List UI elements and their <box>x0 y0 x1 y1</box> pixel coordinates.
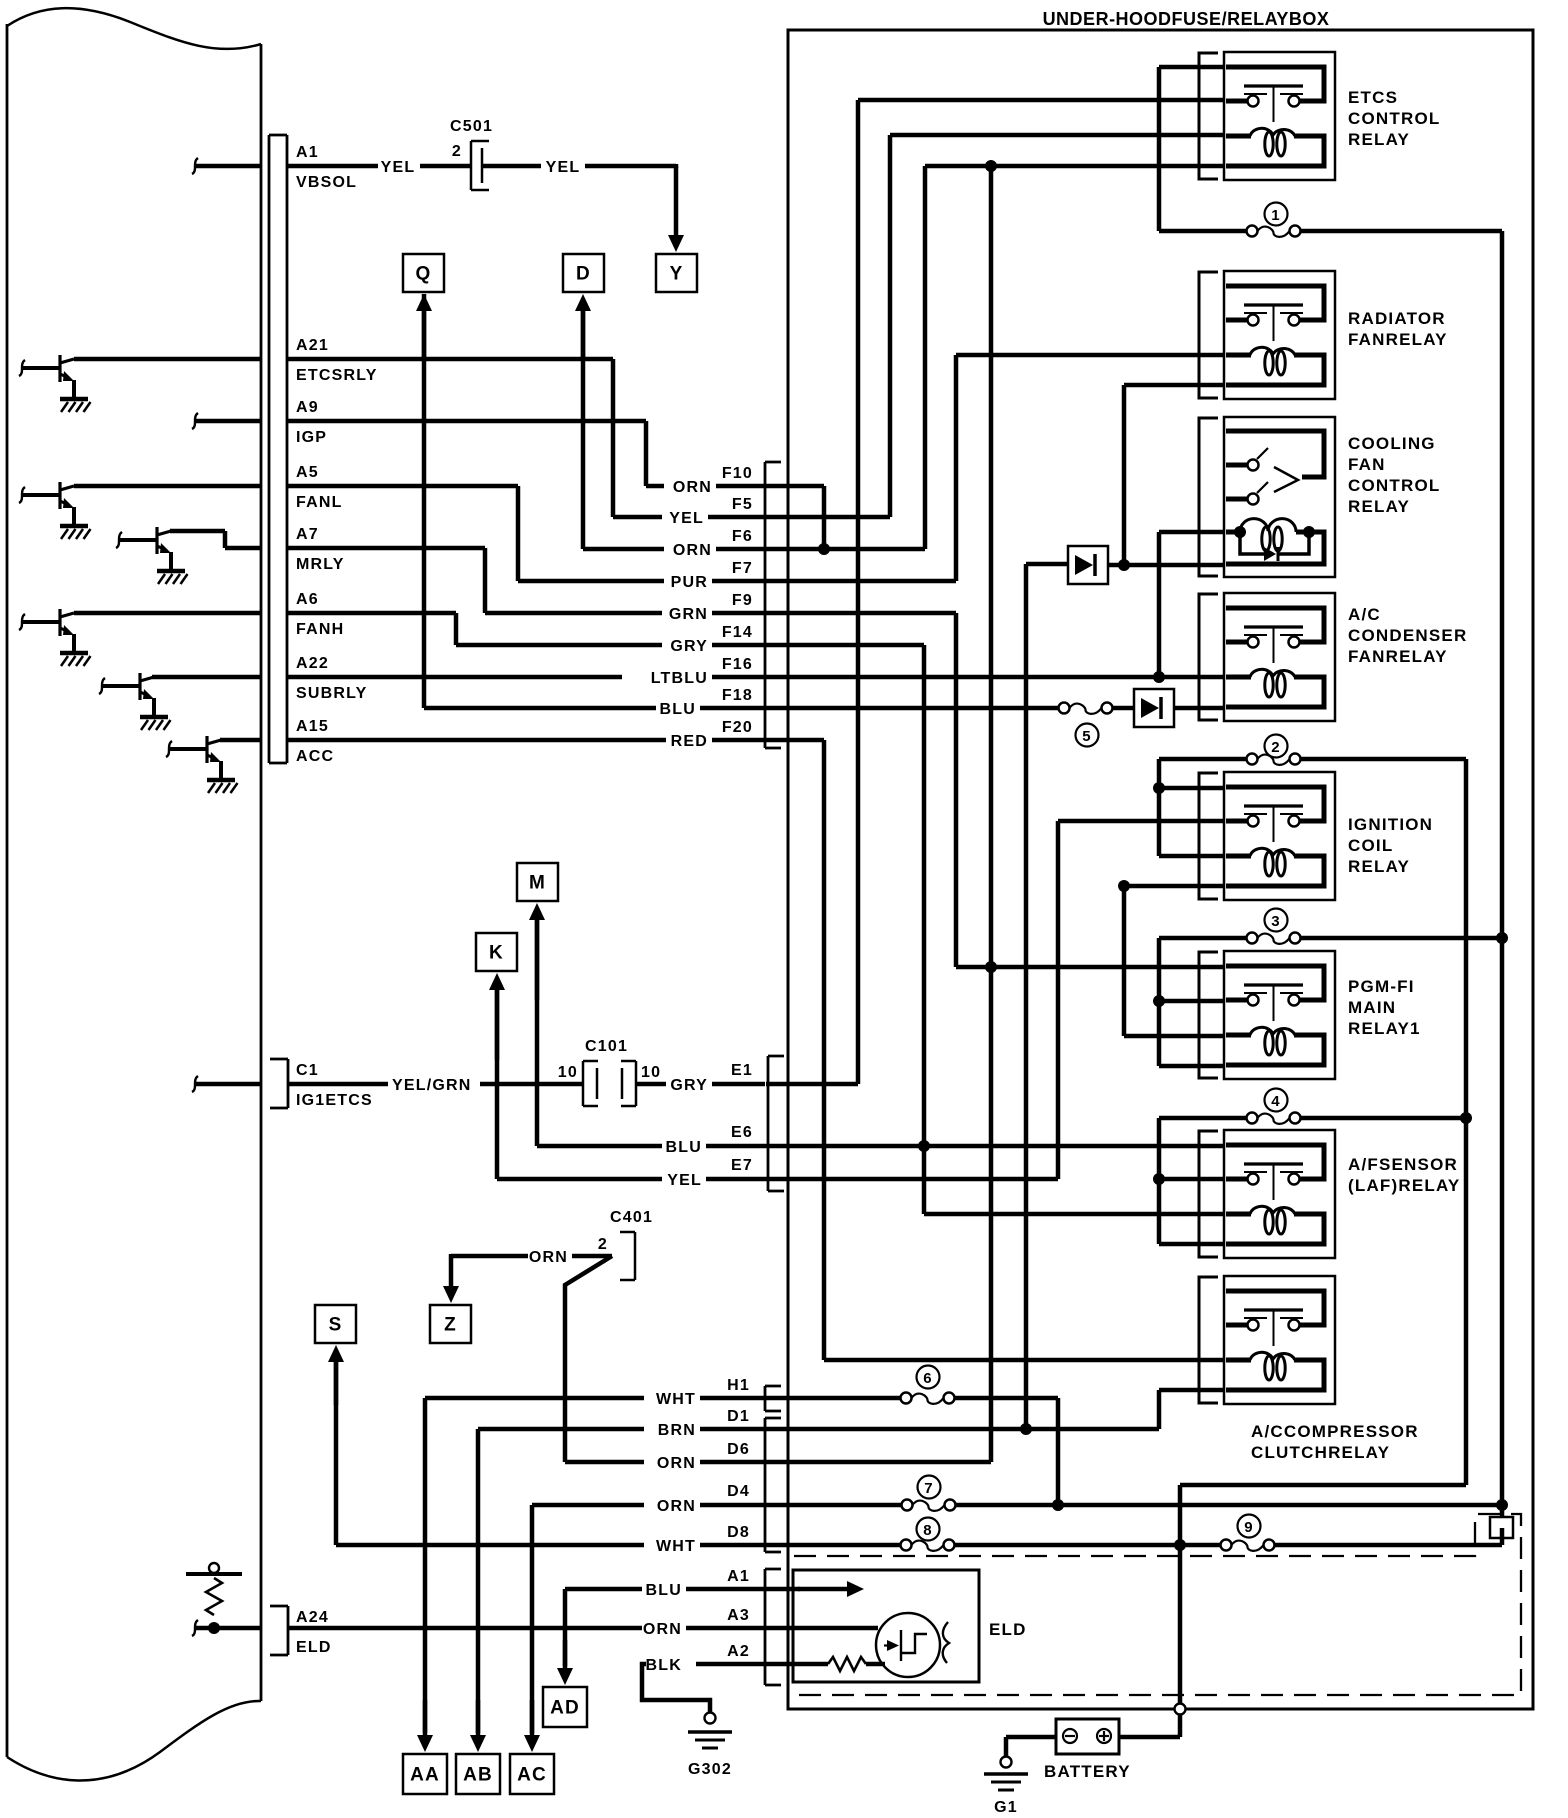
svg-text:UNDER-HOODFUSE/RELAYBOX: UNDER-HOODFUSE/RELAYBOX <box>1043 9 1330 29</box>
svg-text:F14: F14 <box>722 624 753 641</box>
ground G302 <box>688 1713 732 1779</box>
label A/F SENSOR LAF RELAY <box>1348 1155 1460 1195</box>
junction ignition coil- <box>1118 880 1130 892</box>
svg-text:FANRELAY: FANRELAY <box>1348 330 1448 349</box>
junction D6 riser on PGM feed <box>985 961 997 973</box>
svg-text:YEL: YEL <box>667 1172 702 1189</box>
wire BLU A1 row <box>565 1587 765 1592</box>
svg-text:(LAF)RELAY: (LAF)RELAY <box>1348 1176 1460 1195</box>
wire A9 to F10 <box>287 421 646 486</box>
wire A3 into ELD <box>766 1626 878 1631</box>
label C401 pin 2 <box>598 1236 608 1253</box>
svg-text:IGP: IGP <box>296 429 327 446</box>
wire F14 riser to A/F coil+ <box>924 645 1224 1214</box>
pin A9 IGP stub <box>192 413 261 429</box>
svg-text:D6: D6 <box>727 1441 750 1458</box>
wire F14 GRY <box>456 643 765 648</box>
svg-text:6: 6 <box>923 1370 933 1387</box>
svg-text:VBSOL: VBSOL <box>296 174 357 191</box>
relay IGNITION COIL RELAY <box>1199 772 1335 900</box>
junction H1 riser on D4 row <box>1052 1499 1064 1511</box>
wire D4 into box fuse 7 <box>765 1500 1502 1511</box>
svg-text:IGNITION: IGNITION <box>1348 815 1433 834</box>
svg-text:LTBLU: LTBLU <box>651 670 708 687</box>
pin A24 ELD stub <box>192 1620 261 1636</box>
svg-text:A2: A2 <box>727 1643 750 1660</box>
label fuse 4 <box>1265 1089 1288 1112</box>
label C101 pin 10 right <box>641 1064 661 1081</box>
relay COOLING FAN CONTROL RELAY <box>1199 417 1335 577</box>
wire E6 BLU row to A/F top feed <box>765 1144 1224 1149</box>
pin A7 MRLY wire <box>225 546 485 551</box>
svg-text:ORN: ORN <box>673 542 712 559</box>
pin A24 label <box>296 1609 332 1656</box>
wire cooling fan coil+ from SUBRLY <box>1159 532 1224 677</box>
svg-text:YEL/GRN: YEL/GRN <box>392 1077 472 1094</box>
label ORN (C401) <box>529 1249 568 1266</box>
svg-text:ETCSRLY: ETCSRLY <box>296 367 378 384</box>
wire D1 riser to diode 1 <box>1026 564 1068 1429</box>
svg-text:A1: A1 <box>727 1568 750 1585</box>
svg-text:AB: AB <box>463 1765 493 1786</box>
ELD unit box <box>793 1570 979 1682</box>
junction fuse1-bus to fuse3 <box>1496 932 1508 944</box>
junction E6 row <box>918 1140 930 1152</box>
wire D8 WHT row <box>336 1543 765 1548</box>
transistor Q4 (FANH driver) <box>19 609 91 666</box>
wire F14 row into box <box>765 643 924 648</box>
label fuse 9 <box>1238 1515 1261 1538</box>
svg-text:C501: C501 <box>450 118 493 135</box>
svg-text:A24: A24 <box>296 1609 329 1626</box>
connector circle on box edge <box>1175 1704 1186 1715</box>
label fuse 1 <box>1265 203 1288 226</box>
junction PGM-FI contact <box>1153 995 1165 1007</box>
battery terminal + <box>1097 1729 1111 1743</box>
ECM/PCM block right edge <box>260 44 263 1701</box>
label RED <box>671 733 708 750</box>
wire AD riser <box>563 1589 568 1666</box>
svg-text:AC: AC <box>517 1765 547 1786</box>
label GRN F9 <box>669 592 753 623</box>
svg-text:A21: A21 <box>296 337 329 354</box>
svg-text:MAIN: MAIN <box>1348 998 1396 1017</box>
wire F20 RED riser to A/C compressor coil+ <box>765 740 1224 1360</box>
svg-text:GRY: GRY <box>670 638 708 655</box>
svg-text:A15: A15 <box>296 718 329 735</box>
wire C1 YEL/GRN to C101 <box>288 1082 583 1087</box>
label YEL <box>381 159 416 176</box>
svg-text:WHT: WHT <box>656 1538 696 1555</box>
diode D2 (boxed) <box>1134 689 1174 727</box>
page ref Q <box>403 254 444 292</box>
wire F9 GRN <box>485 611 765 616</box>
svg-text:SUBRLY: SUBRLY <box>296 685 368 702</box>
label C101 <box>585 1038 628 1055</box>
svg-text:YEL: YEL <box>546 159 581 176</box>
svg-text:ELD: ELD <box>989 1620 1027 1639</box>
pin A21 ETCSRLY wire <box>74 357 613 362</box>
svg-text:AD: AD <box>550 1698 580 1719</box>
wire ORN A3 row (A24 ELD) <box>288 1626 765 1631</box>
svg-text:RELAY: RELAY <box>1348 130 1410 149</box>
pin A7 label <box>296 526 345 573</box>
arrow into AB <box>470 1700 486 1752</box>
label A/C COMPRESSOR CLUTCH RELAY <box>1251 1422 1419 1462</box>
wire D1 row to A/C compressor coil- <box>765 1390 1224 1429</box>
ELD sensor (MOSFET in circle) <box>876 1613 949 1677</box>
svg-text:BATTERY: BATTERY <box>1044 1762 1131 1781</box>
label fuse 3 <box>1265 909 1288 932</box>
label fuse 8 <box>917 1518 940 1541</box>
junction resistor to A24 <box>208 1622 220 1634</box>
label fuse 6 <box>917 1366 940 1389</box>
svg-text:AA: AA <box>410 1765 440 1786</box>
label YEL F5 <box>669 496 753 527</box>
svg-text:COIL: COIL <box>1348 836 1393 855</box>
page ref AD <box>543 1687 587 1727</box>
page ref K <box>476 933 517 971</box>
svg-text:F20: F20 <box>722 719 753 736</box>
svg-text:FANH: FANH <box>296 621 344 638</box>
svg-text:RELAY: RELAY <box>1348 497 1410 516</box>
svg-text:ORN: ORN <box>657 1455 696 1472</box>
label BLK A2 <box>646 1643 750 1674</box>
junction bus2 fuse4 <box>1460 1112 1472 1124</box>
svg-text:H1: H1 <box>727 1377 750 1394</box>
svg-text:ACC: ACC <box>296 748 334 765</box>
svg-text:FANRELAY: FANRELAY <box>1348 647 1448 666</box>
relay A/C COMPRESSOR CLUTCH RELAY <box>1199 1276 1335 1404</box>
wire ETCS coil- to F6 row <box>765 166 1224 549</box>
wire F6 ORN from D <box>583 311 765 549</box>
terminal square <box>1490 1505 1513 1545</box>
pin A1 label <box>296 144 357 191</box>
diode D1 (boxed) <box>1068 546 1108 584</box>
connector C1 bracket <box>270 1059 288 1108</box>
connector C501 <box>471 141 489 190</box>
ECM torn bottom edge <box>7 1701 261 1781</box>
svg-text:E6: E6 <box>731 1124 753 1141</box>
arrow into AC <box>524 1700 540 1752</box>
svg-text:ORN: ORN <box>657 1498 696 1515</box>
wire A7 to F9 <box>483 548 488 613</box>
label PGM-FI MAIN RELAY1 <box>1348 977 1421 1038</box>
svg-text:CONTROL: CONTROL <box>1348 109 1440 128</box>
svg-text:CONTROL: CONTROL <box>1348 476 1440 495</box>
svg-text:F5: F5 <box>732 496 753 513</box>
wire AB riser <box>476 1429 481 1733</box>
fuse 1 <box>1159 226 1502 237</box>
svg-text:RED: RED <box>671 733 708 750</box>
wire D6 ORN row <box>565 1460 765 1465</box>
svg-text:G302: G302 <box>688 1761 732 1778</box>
wire fuse3 to PGM-FI relay <box>1159 938 1224 1066</box>
connector ELD bracket <box>765 1569 781 1685</box>
wire LTBLU row into box to condenser coil+ <box>765 675 1224 680</box>
label ETCS CONTROL RELAY <box>1348 88 1440 149</box>
wire battery feed riser <box>1119 1485 1466 1737</box>
svg-text:RELAY: RELAY <box>1348 857 1410 876</box>
wire AC riser <box>530 1505 535 1733</box>
page ref Y <box>656 254 697 292</box>
label BATTERY <box>1044 1762 1131 1781</box>
relay PGM-FI MAIN RELAY 1 <box>1199 951 1335 1079</box>
transistor Q5 (SUBRLY driver) <box>99 673 171 730</box>
svg-text:2: 2 <box>1271 739 1281 756</box>
svg-text:A6: A6 <box>296 591 319 608</box>
pin A9 label <box>296 399 327 446</box>
svg-text:ETCS: ETCS <box>1348 88 1398 107</box>
pin C1 label <box>296 1062 373 1109</box>
wire A2 into ELD with resistor <box>766 1657 885 1671</box>
svg-text:RADIATOR: RADIATOR <box>1348 309 1446 328</box>
svg-text:F18: F18 <box>722 687 753 704</box>
svg-text:9: 9 <box>1244 1519 1254 1536</box>
svg-text:ORN: ORN <box>529 1249 568 1266</box>
relay A/C CONDENSER FAN RELAY <box>1199 593 1335 721</box>
svg-text:E7: E7 <box>731 1157 753 1174</box>
wire C101 GRY to E1 <box>636 1082 765 1087</box>
title UNDER-HOOD FUSE/RELAY BOX <box>1043 9 1330 29</box>
battery bus right vertical <box>1500 231 1505 1505</box>
wire ETCS top feed from fuse 1 <box>1159 67 1224 231</box>
pin A6 label <box>296 591 344 638</box>
svg-text:10: 10 <box>558 1064 578 1081</box>
svg-text:YEL: YEL <box>669 510 704 527</box>
junction D1 riser <box>1020 1423 1032 1435</box>
wire D6 riser <box>765 166 991 1462</box>
ground G1 <box>984 1757 1028 1817</box>
label WHT D8 <box>656 1524 750 1555</box>
label BLU A1 <box>646 1568 750 1599</box>
wire diode2 out to condenser coil- <box>1174 706 1224 711</box>
svg-text:D: D <box>576 264 591 285</box>
label ORN D6 <box>657 1441 750 1472</box>
svg-text:A9: A9 <box>296 399 319 416</box>
junction battery riser on D8 row <box>1174 1539 1186 1551</box>
wire AA riser <box>423 1398 428 1733</box>
pin A5 FANL wire <box>74 484 518 489</box>
svg-text:3: 3 <box>1271 913 1281 930</box>
page ref Z <box>430 1305 471 1343</box>
connector C101 <box>583 1061 636 1106</box>
svg-text:5: 5 <box>1082 728 1092 745</box>
wire E7 YEL row to ignition contact riser <box>765 1177 1058 1182</box>
label YEL/GRN <box>392 1077 472 1094</box>
svg-text:Z: Z <box>444 1315 457 1336</box>
wire E7 YEL row harness <box>497 1177 765 1182</box>
label C501 pin 2 <box>452 143 462 160</box>
transistor Q6 (ACC driver) <box>166 736 238 793</box>
svg-text:2: 2 <box>452 143 462 160</box>
wire A5 to F7 <box>516 486 521 581</box>
ELD input arrow (A1) <box>766 1581 864 1597</box>
pin A1 VBSOL stub <box>192 158 261 174</box>
svg-text:BLU: BLU <box>660 701 696 718</box>
svg-text:Y: Y <box>670 264 684 285</box>
svg-text:2: 2 <box>598 1236 608 1253</box>
wire C501 to Y YEL <box>482 166 676 168</box>
wire fuse2 to ignition relay <box>1159 759 1224 856</box>
svg-text:GRN: GRN <box>669 606 708 623</box>
wire D8 into box fuse 8 <box>765 1540 1221 1551</box>
svg-text:8: 8 <box>923 1522 933 1539</box>
pin A6 FANH wire <box>74 611 456 616</box>
svg-text:Q: Q <box>416 264 432 285</box>
arrow into AA <box>417 1700 433 1752</box>
wire F7 PUR <box>518 579 765 584</box>
wire F18 BLU row into box <box>765 706 1058 711</box>
arrow into Q <box>416 294 432 359</box>
svg-text:ORN: ORN <box>643 1621 682 1638</box>
svg-text:PGM-FI: PGM-FI <box>1348 977 1415 996</box>
junction SUBRLY net <box>1153 671 1165 683</box>
label A/C CONDENSER FAN RELAY <box>1348 605 1467 666</box>
svg-text:GRY: GRY <box>670 1077 708 1094</box>
ECM torn top edge <box>7 8 261 49</box>
wire ETCS coil+ from F5 <box>765 135 1224 517</box>
wire F18 BLU from Q <box>424 294 765 708</box>
page ref M <box>517 863 558 901</box>
label YEL 2 <box>546 159 581 176</box>
arrow into Y <box>668 164 684 252</box>
arrow into K <box>489 973 505 1060</box>
fuse 5 <box>1059 703 1113 714</box>
svg-text:A22: A22 <box>296 655 329 672</box>
svg-text:RELAY1: RELAY1 <box>1348 1019 1421 1038</box>
label BRN D1 <box>658 1408 750 1439</box>
battery terminal - <box>1063 1729 1077 1743</box>
label C501 <box>450 118 493 135</box>
svg-text:F9: F9 <box>732 592 753 609</box>
arrow into Z <box>443 1254 459 1303</box>
svg-text:BLU: BLU <box>646 1582 682 1599</box>
wire E6 BLU row harness <box>537 1144 765 1149</box>
wire H1 into box fuse 6 <box>765 1393 1058 1506</box>
wire fuse5 to diode 2 <box>1113 706 1135 711</box>
svg-text:C1: C1 <box>296 1062 319 1079</box>
connector D bracket <box>765 1418 781 1552</box>
wire F5 YEL <box>613 515 765 520</box>
label F20 <box>722 719 753 736</box>
wire D4 ORN row <box>532 1503 765 1508</box>
junction diode out / radiator coil- <box>1118 559 1130 571</box>
arrow into S <box>328 1345 344 1405</box>
svg-text:A/FSENSOR: A/FSENSOR <box>1348 1155 1458 1174</box>
wire ORN C401 to Z <box>451 1254 612 1259</box>
relay RADIATOR FAN RELAY <box>1199 271 1335 399</box>
arrow into M <box>529 903 545 1000</box>
ECM connector A bracket <box>269 135 287 763</box>
pin A5 label <box>296 464 343 511</box>
label ORN F6 <box>673 528 753 559</box>
svg-text:E1: E1 <box>731 1062 753 1079</box>
label IGNITION COIL RELAY <box>1348 815 1433 876</box>
wire radiator coil- from diode <box>1124 385 1224 565</box>
svg-text:F6: F6 <box>732 528 753 545</box>
svg-text:K: K <box>489 943 504 964</box>
pin C1 IG1ETCS stub <box>192 1076 261 1092</box>
label RADIATOR FAN RELAY <box>1348 309 1448 349</box>
svg-text:A/C: A/C <box>1348 605 1381 624</box>
dashed sub-box <box>794 1514 1521 1695</box>
svg-text:PUR: PUR <box>671 574 708 591</box>
label C401 <box>610 1209 653 1226</box>
wire F10 ORN <box>646 484 765 489</box>
wire H1 WHT row <box>425 1396 765 1401</box>
ECM/PCM block left edge (torn) <box>6 24 9 1757</box>
pin A22 SUBRLY wire LTBLU <box>152 675 765 680</box>
label COOLING FAN CONTROL RELAY <box>1348 434 1440 516</box>
connector F bracket <box>765 462 781 748</box>
junction bus to D4 row <box>1496 1499 1508 1511</box>
relay ETCS CONTROL RELAY <box>1199 52 1335 180</box>
wire MRLY/F9 to PGM-FI top feed <box>956 613 1224 967</box>
page ref S <box>315 1305 356 1343</box>
svg-text:A7: A7 <box>296 526 319 543</box>
transistor Q3 (MRLY driver) <box>116 527 225 584</box>
label ORN F10 <box>673 465 753 496</box>
wire A21 to F5 <box>611 359 616 517</box>
svg-text:CONDENSER: CONDENSER <box>1348 626 1467 645</box>
svg-text:YEL: YEL <box>381 159 416 176</box>
label WHT H1 <box>656 1377 750 1408</box>
label ORN A3 <box>643 1607 750 1638</box>
connector A24 bracket <box>270 1606 288 1655</box>
pin A21 label <box>296 337 378 384</box>
wire D1 BRN row <box>478 1427 765 1432</box>
wire M riser <box>535 920 540 1146</box>
svg-text:WHT: WHT <box>656 1391 696 1408</box>
svg-text:G1: G1 <box>994 1799 1018 1816</box>
svg-text:M: M <box>529 873 546 894</box>
svg-text:C101: C101 <box>585 1038 628 1055</box>
wire F9 row into box <box>765 611 956 616</box>
wire radiator coil+ from F7 <box>765 355 1224 581</box>
wire ignition contact from D4 riser <box>1058 821 1224 1179</box>
wire fuse4 to A/F relay <box>1159 1118 1224 1244</box>
label GRY F14 <box>670 624 753 655</box>
svg-text:ELD: ELD <box>296 1639 332 1656</box>
svg-text:C401: C401 <box>610 1209 653 1226</box>
svg-text:BLU: BLU <box>666 1139 702 1156</box>
svg-text:F10: F10 <box>722 465 753 482</box>
svg-text:FANL: FANL <box>296 494 343 511</box>
junction F10/F6 <box>818 543 830 555</box>
svg-text:CLUTCHRELAY: CLUTCHRELAY <box>1251 1443 1390 1462</box>
page ref AB <box>456 1754 500 1794</box>
label fuse 2 <box>1265 735 1288 758</box>
svg-text:7: 7 <box>924 1480 934 1497</box>
svg-text:4: 4 <box>1271 1093 1281 1110</box>
wire diode1 out to cooling fan coil- <box>1108 563 1224 568</box>
page ref AA <box>403 1754 447 1794</box>
wire battery to G1 <box>1006 1737 1056 1756</box>
wire S riser <box>334 1362 339 1545</box>
pin A15 ACC wire RED <box>220 738 765 743</box>
svg-text:A/CCOMPRESSOR: A/CCOMPRESSOR <box>1251 1422 1419 1441</box>
pull-up resistor to A24 <box>186 1563 242 1628</box>
svg-text:ORN: ORN <box>673 479 712 496</box>
svg-text:1: 1 <box>1271 207 1281 224</box>
wire ignition coil- to PGM coil+ <box>1124 886 1224 1036</box>
label BLU F18 <box>660 687 753 718</box>
svg-text:IG1ETCS: IG1ETCS <box>296 1092 373 1109</box>
wire E1 row into box <box>766 1082 858 1087</box>
svg-text:10: 10 <box>641 1064 661 1081</box>
wire BLK A2 row <box>642 1664 765 1712</box>
